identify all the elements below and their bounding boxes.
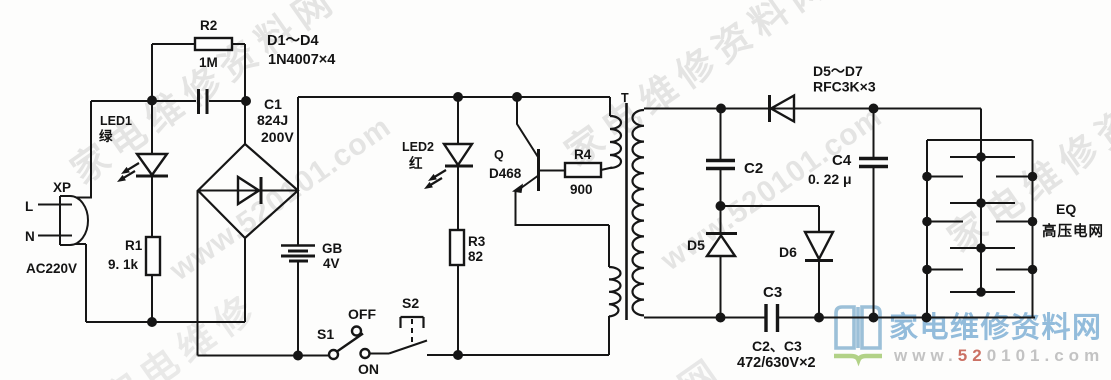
- svg-text:D5: D5: [687, 237, 705, 253]
- svg-text:C3: C3: [763, 284, 782, 301]
- svg-text:C2: C2: [744, 160, 763, 177]
- svg-text:1N4007×4: 1N4007×4: [268, 52, 335, 68]
- svg-text:D6: D6: [779, 244, 797, 260]
- svg-text:N: N: [25, 229, 35, 244]
- svg-text:C2、C3: C2、C3: [752, 338, 802, 354]
- svg-text:200V: 200V: [261, 129, 294, 145]
- svg-text:LED1: LED1: [100, 114, 132, 128]
- svg-text:R4: R4: [574, 147, 592, 162]
- svg-text:D5～D7: D5～D7: [813, 63, 863, 79]
- svg-text:D468: D468: [489, 166, 522, 181]
- svg-text:www.520101.com: www.520101.com: [893, 346, 1104, 365]
- svg-text:900: 900: [570, 182, 593, 197]
- svg-text:L: L: [25, 199, 33, 214]
- svg-text:ON: ON: [358, 361, 379, 377]
- svg-text:S2: S2: [402, 295, 419, 311]
- svg-text:T: T: [621, 91, 629, 105]
- svg-text:家电维修资料网: 家电维修资料网: [889, 310, 1103, 344]
- svg-text:绿: 绿: [99, 128, 113, 144]
- svg-text:4V: 4V: [323, 256, 340, 271]
- svg-text:RFC3K×3: RFC3K×3: [813, 79, 876, 95]
- svg-text:0. 22 μ: 0. 22 μ: [808, 171, 852, 187]
- svg-text:1M: 1M: [199, 55, 218, 70]
- svg-text:红: 红: [409, 155, 423, 171]
- svg-text:Q: Q: [494, 148, 504, 162]
- svg-text:C4: C4: [832, 152, 852, 169]
- svg-text:OFF: OFF: [348, 306, 376, 322]
- svg-text:R2: R2: [200, 18, 217, 33]
- svg-text:C1: C1: [264, 96, 282, 112]
- svg-text:EQ: EQ: [1056, 201, 1076, 217]
- svg-text:高压电网: 高压电网: [1042, 222, 1104, 240]
- svg-text:GB: GB: [322, 241, 343, 256]
- svg-text:D1～D4: D1～D4: [267, 33, 319, 49]
- svg-text:S1: S1: [317, 326, 334, 342]
- svg-text:AC220V: AC220V: [26, 261, 77, 276]
- svg-text:LED2: LED2: [402, 140, 434, 154]
- svg-text:82: 82: [468, 249, 483, 264]
- svg-text:R3: R3: [468, 234, 486, 249]
- svg-text:824J: 824J: [257, 112, 288, 128]
- svg-text:472/630V×2: 472/630V×2: [737, 355, 816, 371]
- svg-text:XP: XP: [53, 180, 71, 195]
- svg-text:R1: R1: [125, 238, 143, 253]
- svg-text:9. 1k: 9. 1k: [108, 257, 139, 272]
